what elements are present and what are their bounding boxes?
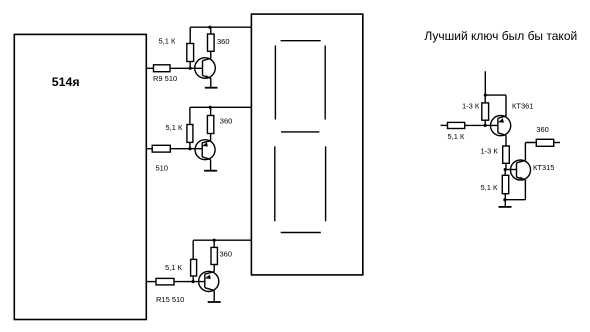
svg-text:360: 360 bbox=[220, 116, 233, 125]
svg-text:1-3 К: 1-3 К bbox=[481, 147, 499, 156]
svg-text:5,1 К: 5,1 К bbox=[166, 123, 184, 132]
svg-text:510: 510 bbox=[156, 164, 169, 173]
svg-text:360: 360 bbox=[536, 125, 549, 134]
svg-text:360: 360 bbox=[220, 250, 233, 259]
svg-text:R9 510: R9 510 bbox=[153, 74, 177, 83]
svg-text:5,1 К: 5,1 К bbox=[165, 263, 183, 272]
svg-text:R15 510: R15 510 bbox=[156, 295, 184, 304]
svg-text:КТ361: КТ361 bbox=[512, 102, 533, 111]
svg-text:5,1 К: 5,1 К bbox=[159, 37, 177, 46]
svg-text:360: 360 bbox=[217, 37, 230, 46]
svg-text:Лучший ключ был бы такой: Лучший ключ был бы такой bbox=[424, 29, 577, 43]
svg-text:5,1 К: 5,1 К bbox=[448, 132, 466, 141]
svg-text:514я: 514я bbox=[52, 75, 80, 89]
svg-text:КТ315: КТ315 bbox=[533, 163, 554, 172]
svg-text:5,1 К: 5,1 К bbox=[481, 183, 499, 192]
svg-text:1-3 К: 1-3 К bbox=[462, 101, 480, 110]
